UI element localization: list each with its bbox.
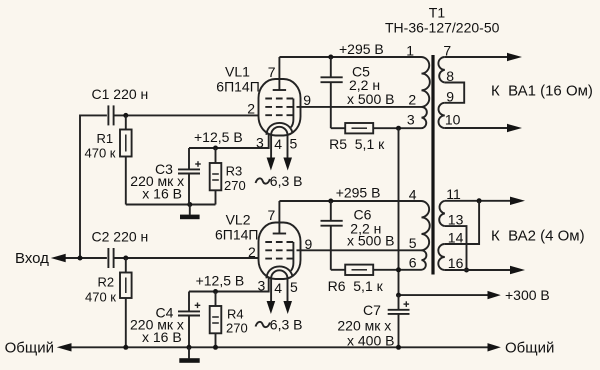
capacitor C7 220mk x 400V: [337, 295, 409, 348]
svg-text:13: 13: [448, 211, 464, 227]
transformer T1 primary winding 2-3: [407, 107, 427, 128]
transformer T1 secondary winding 7-8: [438, 43, 454, 84]
capacitor C2: [92, 228, 149, 268]
tube VL1 grid g3 dashes: [265, 98, 293, 100]
capacitor C4 220mk x 16V: [130, 292, 200, 348]
tube VL2 heater arrow 4: [267, 301, 276, 314]
svg-text:7: 7: [268, 64, 276, 80]
node C2-R2 junction: [123, 256, 128, 261]
svg-text:6,3 В: 6,3 В: [270, 173, 303, 189]
resistor R6 5.1k: [328, 265, 422, 295]
tube VL2 g3-cathode link: [291, 242, 294, 271]
svg-text:R4: R4: [227, 307, 244, 322]
svg-text:ТН-36-127/220-50: ТН-36-127/220-50: [385, 19, 500, 35]
wire secondary pin 10 output: [445, 127, 508, 129]
resistor R2 470k: [85, 258, 132, 347]
svg-text:4: 4: [274, 136, 282, 152]
wire VL2 +12.5V cathode line: [189, 277, 269, 292]
svg-text:Общий: Общий: [505, 339, 554, 356]
node C3 bottom junction: [187, 202, 192, 207]
capacitor C3 220mk x 16V: [130, 148, 201, 205]
transformer T1 secondary winding 11-13: [439, 186, 463, 227]
node R4 bottom junction: [213, 345, 218, 350]
svg-text:С1 220 н: С1 220 н: [92, 86, 149, 102]
node pin 16 junction: [464, 268, 469, 273]
resistor R4 270: [210, 292, 248, 348]
svg-text:11: 11: [446, 186, 461, 202]
svg-text:9: 9: [446, 89, 454, 105]
wire input to C1 branch vertical: [80, 115, 107, 258]
op tube VL2 6P14P: [215, 201, 313, 333]
svg-text:VL1: VL1: [225, 63, 250, 79]
resistor R1 470k: [85, 115, 132, 204]
node BA2 arrow top: [510, 197, 525, 205]
wire secondary pin 11 output: [445, 200, 511, 202]
node +300V arrow: [488, 291, 501, 299]
svg-text:+12,5 В: +12,5 В: [194, 129, 243, 145]
transformer T1 secondary winding 9-10: [438, 89, 460, 128]
svg-text:Общий: Общий: [5, 339, 54, 356]
svg-text:4: 4: [274, 280, 282, 296]
capacitor C5 2.2n: [321, 57, 395, 128]
tube VL2 grid g1 dashes pin 2: [265, 258, 293, 260]
resistor R3 270: [210, 148, 246, 205]
transformer T1 primary winding 1-2: [406, 43, 430, 108]
node input junction: [78, 256, 83, 261]
wire VL1 plate +295V line: [279, 56, 421, 58]
svg-text:7: 7: [268, 207, 276, 223]
tube VL1 heater pins 4 5: [271, 127, 287, 159]
wire C1 to VL1 grid: [114, 114, 259, 116]
svg-text:х 16 В: х 16 В: [142, 329, 182, 345]
svg-text:R6 5,1 к: R6 5,1 к: [328, 278, 384, 294]
svg-text:R2: R2: [98, 274, 115, 289]
svg-text:3: 3: [258, 278, 266, 294]
node BA1 arrow bottom: [507, 124, 522, 132]
node BA1 arrow top: [507, 53, 522, 61]
node R3 top junction: [213, 146, 218, 151]
tube VL1 heater arrow 5: [283, 158, 292, 171]
wire VL2 screen to transformer pin 5: [297, 249, 422, 251]
tube VL1 heater arrow 4: [267, 158, 276, 171]
svg-text:2: 2: [408, 92, 416, 108]
ground VL2: [179, 347, 199, 363]
node R5 pin3 junction: [396, 126, 401, 131]
resistor R5 5.1k: [329, 123, 421, 152]
node R6 pin6 junction: [396, 267, 401, 272]
svg-text:К ВА2 (4 Ом): К ВА2 (4 Ом): [491, 228, 585, 245]
node common arrow right: [488, 343, 501, 351]
svg-text:6: 6: [409, 255, 417, 271]
svg-text:+12,5 В: +12,5 В: [196, 272, 245, 288]
tube VL2 heater arrow 5: [283, 301, 292, 314]
tube VL2 heater pins 4 5: [271, 270, 287, 302]
svg-text:x 500 В: x 500 В: [347, 91, 394, 107]
wire input line: [65, 257, 107, 259]
wire VL2 plate +295V line: [279, 200, 421, 202]
tube VL1 cathode pin 3: [266, 123, 292, 135]
node C4 bottom junction: [187, 345, 192, 350]
svg-text:5: 5: [290, 279, 298, 295]
svg-text:Т1: Т1: [429, 4, 446, 20]
svg-text:+300 В: +300 В: [505, 287, 550, 303]
svg-text:470 к: 470 к: [85, 289, 116, 304]
svg-text:470 к: 470 к: [85, 146, 116, 161]
tube VL2 6.3V label: [256, 322, 270, 327]
svg-text:6П14П: 6П14П: [215, 226, 258, 242]
wire VL1 +12.5V cathode line: [189, 134, 269, 149]
tube VL2 envelope: [259, 223, 301, 280]
capacitor C1: [92, 86, 149, 126]
node R4 top junction: [213, 289, 218, 294]
svg-text:270: 270: [224, 178, 246, 193]
svg-text:С2 220 н: С2 220 н: [92, 228, 149, 244]
svg-text:9: 9: [303, 92, 311, 108]
svg-text:6П14П: 6П14П: [216, 78, 259, 94]
transformer T1 core: [431, 55, 434, 275]
svg-text:VL2: VL2: [226, 211, 251, 227]
tube VL2 grid g3 dashes: [265, 241, 293, 243]
svg-text:1: 1: [406, 43, 414, 59]
tube VL1 grid g2 dashes pin 9: [265, 106, 293, 108]
wire secondary pin 7 output: [445, 56, 508, 58]
svg-text:270: 270: [226, 321, 248, 336]
svg-text:R1: R1: [97, 131, 114, 146]
svg-text:220 мк х: 220 мк х: [337, 318, 391, 334]
svg-text:2: 2: [247, 101, 255, 117]
wire secondary 13-16 parallel link: [445, 226, 467, 270]
node C7 bottom junction: [396, 345, 401, 350]
svg-text:2: 2: [248, 244, 256, 260]
wire common bottom bus: [71, 346, 488, 348]
svg-text:х 400 В: х 400 В: [347, 332, 394, 348]
wire VL2 input line C2 to grid: [114, 257, 259, 259]
node C5 top junction: [328, 55, 333, 60]
svg-text:Вход: Вход: [15, 250, 49, 267]
tube VL1 grid g1 dashes pin 2: [265, 114, 293, 116]
wire +300V feed vertical: [398, 128, 400, 295]
transformer T1 primary winding 5-6: [409, 250, 427, 270]
tube VL2 grid g2 dashes pin 9: [265, 249, 293, 251]
svg-text:+295 В: +295 В: [339, 41, 384, 57]
node BA2 arrow bottom: [510, 266, 525, 274]
tube VL1 g3-cathode link: [291, 99, 294, 128]
svg-text:R5 5,1 к: R5 5,1 к: [329, 136, 385, 152]
svg-text:К ВА1 (16 Ом): К ВА1 (16 Ом): [491, 83, 593, 100]
svg-text:С7: С7: [363, 302, 381, 318]
capacitor C6 2.2n: [321, 201, 395, 270]
tube VL1 envelope: [259, 79, 301, 136]
svg-text:3: 3: [256, 134, 264, 150]
svg-text:+295 В: +295 В: [336, 185, 381, 201]
tube VL1 6.3V label: [256, 178, 270, 183]
tube VL1 anode pin 7: [273, 89, 286, 91]
svg-text:R3: R3: [226, 163, 243, 178]
svg-text:16: 16: [448, 255, 464, 271]
wire secondary 8-9 series link: [445, 83, 464, 103]
node pin 11 junction: [477, 198, 482, 203]
svg-text:x 500 В: x 500 В: [347, 233, 394, 249]
node C1-R1 junction: [123, 113, 128, 118]
node +300V junction: [396, 293, 401, 298]
svg-text:3: 3: [407, 112, 415, 128]
svg-text:5: 5: [409, 235, 417, 251]
tube VL2 cathode pin 3: [266, 266, 292, 278]
svg-text:5: 5: [290, 136, 298, 152]
svg-text:10: 10: [445, 112, 461, 128]
node R2 bottom junction: [123, 345, 128, 350]
svg-text:4: 4: [409, 186, 417, 202]
transformer T1 secondary winding 14-16: [438, 229, 463, 271]
svg-text:6,3 В: 6,3 В: [270, 317, 303, 333]
ground VL1: [180, 205, 200, 220]
svg-text:14: 14: [448, 229, 464, 245]
node input arrow: [51, 254, 66, 262]
node C6 top junction: [328, 199, 333, 204]
wire VL1 screen to transformer pin 2: [297, 106, 422, 108]
wire +300V line: [399, 294, 489, 296]
wire VL1 cathode ground bus: [126, 204, 216, 206]
node common arrow left: [57, 343, 72, 351]
tube VL2 anode pin 7: [273, 233, 286, 235]
wire secondary pin 16 output: [445, 269, 511, 271]
svg-text:х 16 В: х 16 В: [142, 186, 182, 202]
op tube VL1 6P14P: [216, 57, 311, 189]
wire secondary 11-14 parallel link: [445, 201, 479, 244]
transformer T1 primary winding 4-5: [409, 186, 430, 251]
